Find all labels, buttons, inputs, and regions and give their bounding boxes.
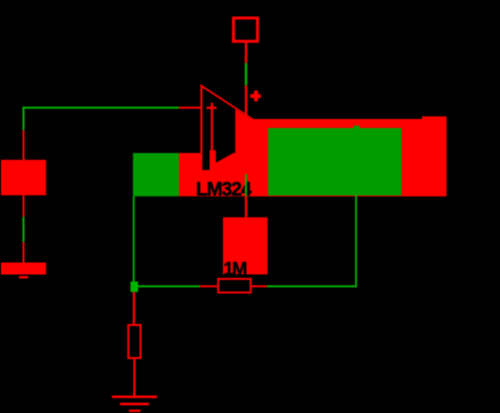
wire: red segment to bottom bar (23, 242, 25, 262)
wire: left vertical green upper (23, 107, 25, 131)
wire: battery to bar red (23, 195, 25, 216)
highlight rect red (op-amp body area) (179, 153, 258, 196)
wire: output red down to label box (245, 196, 247, 217)
battery V1 top plate box (1, 160, 46, 196)
wire: green vertical from green rect down to junction (133, 196, 135, 281)
ground symbol line 2 (120, 403, 149, 406)
ground symbol line 3 (129, 410, 141, 412)
wire: green to right block (267, 285, 357, 287)
green notch on top of inner rect (354, 126, 360, 129)
wire: terminal down red (245, 41, 247, 63)
wire: green vertical from right block down (355, 196, 357, 288)
wire: left vertical red to battery (23, 130, 25, 160)
wire: junction to resistor green (138, 285, 200, 287)
ground symbol line 1 (112, 396, 157, 399)
wire: green segment (245, 63, 247, 85)
battery V1 bottom plate bar (1, 263, 46, 275)
resistor R2 vertical body (128, 325, 140, 358)
wire: red out of resistor right (252, 285, 267, 287)
pin box between columns (210, 150, 216, 153)
highlight rect red (resistor label box) (223, 217, 268, 274)
op-amp non-inverting input cross (207, 107, 217, 109)
svg-text:1M: 1M (224, 258, 247, 279)
wire: top horizontal red into op-amp (179, 107, 202, 109)
junction node (green square) (131, 282, 139, 293)
highlight rect green (left of op-amp) (133, 153, 179, 196)
highlight rect red top step (422, 116, 447, 120)
svg-text:LM324: LM324 (196, 179, 252, 200)
op-amp U1 fill (apex region) (235, 109, 253, 153)
wire: red segment to op-amp top edge (245, 85, 247, 120)
wire: red into resistor left (200, 285, 217, 287)
highlight rect red large (right block) (250, 119, 447, 196)
black cutout column 2 inside op-amp (wedge) (216, 153, 233, 163)
wire: resistor to ground red (133, 359, 135, 397)
wire: op-amp output down green over red (245, 174, 247, 196)
battery V1 small lower dash (19, 276, 28, 279)
plus marker at V+ pin (254, 91, 258, 102)
wire: junction down red (133, 292, 135, 324)
wire: top horizontal green (23, 107, 180, 109)
terminal square (top connector) (234, 18, 258, 41)
highlight rect green inner (right block) (268, 128, 402, 196)
black cutout column 1 inside op-amp (202, 153, 209, 170)
op-amp left edge (200, 85, 202, 154)
wire: battery middle green segment (23, 217, 25, 242)
op-amp top diagonal edge (201, 85, 253, 121)
resistor R1 horizontal body (218, 279, 251, 293)
